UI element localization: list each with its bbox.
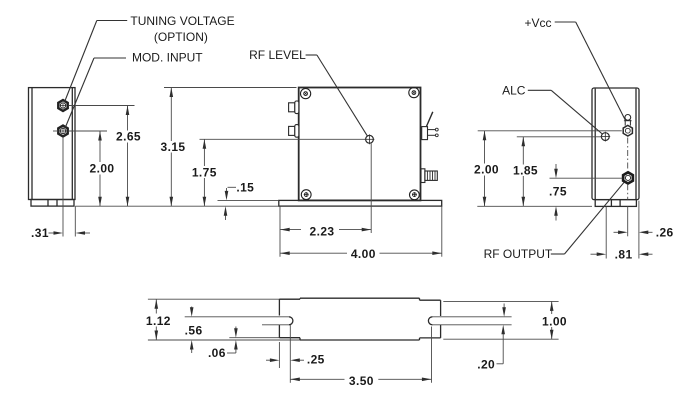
svg-text:.56: .56 xyxy=(185,323,203,337)
svg-text:MOD. INPUT: MOD. INPUT xyxy=(132,51,203,65)
svg-text:.75: .75 xyxy=(549,184,567,198)
svg-text:+Vcc: +Vcc xyxy=(524,16,551,30)
svg-text:3.15: 3.15 xyxy=(161,140,186,154)
svg-text:.15: .15 xyxy=(236,181,254,195)
svg-text:1.85: 1.85 xyxy=(513,163,538,177)
svg-text:.31: .31 xyxy=(31,226,49,240)
svg-text:.25: .25 xyxy=(307,353,325,367)
svg-text:RF OUTPUT: RF OUTPUT xyxy=(484,247,553,261)
svg-text:.20: .20 xyxy=(477,357,495,371)
svg-text:2.23: 2.23 xyxy=(310,224,335,238)
svg-text:.81: .81 xyxy=(615,247,633,261)
svg-text:.26: .26 xyxy=(656,226,674,240)
svg-text:2.00: 2.00 xyxy=(90,162,115,176)
svg-text:RF LEVEL: RF LEVEL xyxy=(249,48,306,62)
svg-text:1.75: 1.75 xyxy=(192,165,217,179)
svg-text:.06: .06 xyxy=(208,346,226,360)
svg-text:(OPTION): (OPTION) xyxy=(154,30,208,44)
svg-text:2.00: 2.00 xyxy=(474,163,499,177)
svg-text:1.00: 1.00 xyxy=(542,314,567,328)
svg-text:2.65: 2.65 xyxy=(116,130,141,144)
svg-text:ALC: ALC xyxy=(502,83,526,97)
svg-text:4.00: 4.00 xyxy=(351,247,376,261)
svg-text:TUNING VOLTAGE: TUNING VOLTAGE xyxy=(130,14,234,28)
svg-text:1.12: 1.12 xyxy=(146,314,171,328)
svg-text:3.50: 3.50 xyxy=(349,374,374,388)
